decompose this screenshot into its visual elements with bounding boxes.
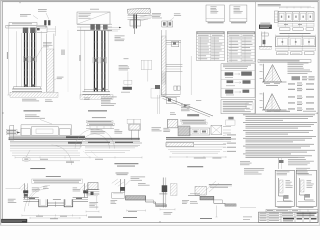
sealant panel box bbox=[221, 64, 255, 98]
wind formula block 5 bbox=[288, 102, 295, 105]
panel captions bbox=[278, 206, 292, 209]
jamb det A caption bbox=[88, 216, 102, 219]
scale note bbox=[124, 57, 129, 60]
table header band bbox=[227, 32, 255, 35]
scan edge shading bbox=[0, 0, 320, 1]
detail 1 mullion clamp boxes bbox=[23, 57, 29, 63]
detail 2 left dim bbox=[80, 27, 82, 96]
table column line bbox=[240, 34, 242, 62]
connection note text bbox=[119, 64, 128, 67]
detail 1 anchor leader text bbox=[38, 8, 47, 11]
plan A glazing band bbox=[9, 137, 86, 140]
plan B jamb step rects bbox=[127, 119, 134, 123]
jamb detail head boxes bbox=[162, 21, 167, 27]
glazing bead leader text bbox=[288, 156, 305, 159]
wind graph 1 axes bbox=[263, 64, 265, 82]
detail 2 sill profile bbox=[84, 89, 108, 91]
panel 2 stepped profile bbox=[300, 178, 314, 200]
jamb det B dims bbox=[127, 210, 146, 212]
publisher stamp bbox=[259, 25, 272, 29]
jamb det B mullion bbox=[119, 179, 121, 193]
sill det dim bbox=[160, 208, 175, 210]
title block small cell texts bbox=[260, 212, 267, 215]
wind graph 1 axis labels bbox=[260, 64, 263, 67]
wind graph 1 hatched triangle bbox=[264, 65, 282, 83]
legend box bbox=[221, 100, 255, 114]
plan B bottom dashed leader bbox=[84, 151, 98, 157]
detail 1 leader bbox=[33, 16, 38, 20]
plan A outline top bbox=[21, 124, 72, 126]
sealant cell 1 bbox=[225, 72, 234, 75]
wind formula block 6 bbox=[288, 108, 295, 111]
connection leader line bbox=[127, 72, 129, 87]
detail 1 mullion A bbox=[24, 33, 25, 87]
connection dark bar bbox=[123, 87, 132, 90]
sealant panel header text bbox=[223, 64, 251, 67]
plan A caption bbox=[30, 168, 45, 169]
elevation 1 frame bbox=[278, 12, 314, 22]
wind panel title bbox=[258, 60, 311, 63]
jamb det B hatch ticks bbox=[112, 179, 124, 186]
plan B right note bbox=[152, 126, 162, 129]
pocket wing right bbox=[73, 196, 88, 198]
detail 2 transom profile bbox=[77, 23, 112, 25]
threshold title bbox=[209, 183, 232, 186]
detail 3 hanger bars bbox=[133, 14, 134, 28]
file stamp bar bbox=[1, 219, 27, 223]
plan B swing arcs bbox=[75, 129, 114, 149]
elevation panel separator bbox=[255, 2, 257, 114]
title block verticals bbox=[267, 212, 269, 222]
pocket left post bbox=[24, 183, 26, 199]
table frame bbox=[197, 32, 225, 61]
pocket dim lines bbox=[22, 214, 87, 216]
title block frame bbox=[259, 212, 319, 222]
wind formula block 1 bbox=[292, 76, 301, 80]
detail 2 glass edge right bbox=[107, 30, 109, 92]
pocket wing left bbox=[23, 196, 39, 198]
sill det mullion pair bbox=[162, 178, 164, 208]
jamb wall hatched strip bbox=[161, 30, 163, 96]
jamb det B panel box bbox=[112, 193, 125, 199]
plan A left end cap bbox=[10, 126, 14, 141]
connection caption bbox=[121, 91, 130, 94]
pocket left post hatch ticks bbox=[19, 184, 28, 192]
detail 1 wall note bbox=[57, 76, 64, 79]
plan C head assembly bbox=[178, 126, 190, 136]
wind formula block 4 bbox=[288, 96, 295, 99]
panel 1 box bbox=[275, 170, 294, 206]
table subheader bbox=[197, 36, 225, 38]
table header band bbox=[197, 32, 225, 35]
title block mid horizontal bbox=[259, 216, 319, 218]
detail 2 mullion head blocks bbox=[90, 25, 94, 30]
plan C corner note bbox=[240, 160, 250, 163]
threshold bars upper bbox=[190, 193, 200, 195]
jamb angled sill bbox=[163, 96, 214, 116]
detail 1 sill profile bbox=[14, 86, 40, 89]
jamb det A profiles bbox=[86, 189, 99, 191]
detail 1 floor hatch bbox=[10, 92, 58, 97]
detail 1 wall strip bbox=[46, 34, 48, 92]
threshold leaders bbox=[206, 181, 216, 190]
detail 1 right dim faint bbox=[67, 30, 69, 92]
sealant cell 3 bbox=[225, 90, 233, 94]
panel 2 inner text bbox=[307, 179, 312, 182]
pocket label strip bbox=[32, 179, 83, 183]
threshold dim vertical bbox=[216, 206, 218, 218]
table column line bbox=[210, 34, 212, 60]
bottom centre caption bbox=[116, 172, 129, 175]
cluster verticals down bbox=[157, 95, 159, 114]
jamb det A dim bbox=[86, 211, 99, 213]
jamb det B right bar bbox=[156, 205, 167, 207]
elevation 1 top dim bbox=[280, 7, 315, 9]
glazing bead mini detail bbox=[278, 158, 280, 170]
pocket hinge blobs bbox=[23, 190, 28, 193]
lower-left legend text bbox=[244, 167, 264, 170]
threshold right bar bbox=[225, 204, 236, 206]
plan dims bbox=[15, 156, 142, 158]
detail 2 floor hatch bbox=[80, 95, 113, 100]
detail 2 mullion clamps bbox=[93, 58, 99, 64]
detail 1 mullion B bbox=[31, 33, 32, 87]
elevation panel title bbox=[258, 4, 281, 5]
jamb small paired rects bbox=[174, 86, 177, 90]
plan C glazing band bbox=[166, 136, 231, 139]
wind formula block 2 bbox=[288, 83, 295, 86]
detail 1 head bracket box bbox=[37, 27, 47, 33]
plan A inner text bbox=[91, 129, 103, 132]
detail 2 mullion A bbox=[94, 31, 95, 92]
plan A interlock dark blocks bbox=[66, 136, 85, 138]
strip cluster bbox=[151, 89, 160, 99]
plan A top note text bbox=[25, 114, 37, 117]
detail 2 sill notes bbox=[84, 97, 90, 100]
detail 3 soffit lines bbox=[128, 14, 153, 16]
plan C left leader text bbox=[163, 127, 168, 130]
frame centring ticks bbox=[2, 112, 4, 114]
plan A detail bubble bbox=[22, 157, 30, 161]
threshold sub labels bbox=[190, 200, 197, 203]
jamb vertical glass line bbox=[179, 40, 181, 95]
plan B track blocks bbox=[88, 142, 110, 143]
plan A swing arc bbox=[52, 145, 72, 165]
wind graph 2 axes bbox=[263, 93, 265, 111]
panel 1 header text bbox=[277, 171, 290, 174]
plan B label strips bbox=[92, 116, 106, 119]
wind notes text bbox=[288, 62, 309, 65]
plan B lower profiles bbox=[85, 140, 140, 142]
detail 1 caption bbox=[24, 110, 41, 111]
corner box detail bbox=[141, 60, 152, 69]
wind graph 2 hatched triangle bbox=[265, 94, 281, 111]
detail 3 bracket box bbox=[130, 20, 140, 26]
cluster horizontals bbox=[161, 93, 180, 95]
plan C top note bbox=[170, 111, 175, 114]
plan C right leader labels bbox=[227, 134, 236, 137]
elevation 2 windows bbox=[277, 38, 288, 45]
sample box A caption bbox=[208, 21, 224, 24]
panel 2 box bbox=[296, 170, 316, 206]
sealant cell 2 bbox=[227, 80, 234, 83]
detail 1 anchor bolts bbox=[44, 20, 46, 25]
title block revision row bbox=[266, 209, 318, 212]
jamb det A label bbox=[89, 201, 98, 204]
jamb mid window bars bbox=[166, 63, 182, 65]
detail 1 sill notes bbox=[22, 98, 36, 101]
plan A mid rail bbox=[10, 134, 85, 136]
elevation 1 plan strips bbox=[280, 28, 291, 31]
threshold step bbox=[214, 196, 237, 206]
detail 1 label text bbox=[20, 13, 31, 16]
table frame bbox=[227, 32, 255, 63]
table subheader bbox=[227, 36, 255, 38]
threshold hatch wedge bbox=[195, 186, 206, 195]
elevation 2 top dim bbox=[276, 34, 316, 36]
elevation 2 title bbox=[280, 32, 311, 35]
elevation 1 left schedule bar bbox=[274, 11, 278, 23]
pocket centre band bbox=[47, 202, 64, 204]
pocket left label bbox=[8, 198, 16, 201]
wind formula block 3 bbox=[288, 88, 295, 91]
detail 2 mullion B bbox=[101, 31, 102, 92]
sample box B caption bbox=[231, 21, 246, 24]
pocket right post bbox=[84, 183, 86, 197]
detail 1 glass line right bbox=[28, 33, 30, 87]
plan B upper profile strip bbox=[86, 125, 114, 127]
sample box A bbox=[206, 5, 224, 22]
detail 2 right note text bbox=[115, 35, 125, 38]
jamb sill leader text bbox=[181, 103, 190, 106]
left-of-titleblock dim marks bbox=[240, 207, 256, 209]
detail 2 infill panel bbox=[90, 8, 99, 11]
jamb upper window bars bbox=[166, 39, 181, 41]
title block number cells bbox=[297, 218, 303, 220]
jamb det B step bbox=[146, 196, 167, 205]
pocket swing arc bbox=[25, 185, 51, 211]
frame fold tick bbox=[19, 2, 21, 3]
title block drawing title bbox=[283, 218, 294, 220]
pocket detail caption top bbox=[46, 175, 61, 178]
plan C lower lines bbox=[166, 139, 231, 141]
plan A left label boxes bbox=[6, 129, 17, 131]
elevation 2 frame bbox=[276, 37, 316, 47]
threshold caption bbox=[200, 217, 212, 220]
legend sample chip bbox=[246, 103, 253, 109]
panel 2 header text bbox=[298, 171, 308, 174]
elevation 2 bottom dims bbox=[276, 47, 316, 49]
elevation 1 door leafs bbox=[279, 13, 284, 20]
threshold dark bar bbox=[200, 196, 214, 200]
panel 1 inner text bbox=[286, 179, 290, 182]
left jamb mini-detail bbox=[261, 32, 263, 47]
sample box B bbox=[230, 5, 247, 22]
detail 1 mullion head blocks bbox=[23, 28, 28, 34]
detail 1 head transom profile bbox=[6, 24, 46, 26]
table rows bbox=[198, 37, 209, 40]
elevation 1 bottom dims bbox=[278, 23, 314, 25]
plan C hatched lower band bbox=[166, 143, 194, 147]
sill det dark fitting bbox=[162, 185, 168, 192]
jamb glass vertical 2 bbox=[190, 56, 192, 95]
plan A head boxes bbox=[21, 129, 30, 136]
sill det text bbox=[164, 211, 173, 214]
jamb det A vertical bbox=[96, 196, 98, 210]
plan C right profiles bbox=[223, 126, 231, 128]
jamb det B leader texts bbox=[131, 176, 146, 179]
jamb det B hatched bar bbox=[126, 196, 146, 200]
notes text block bbox=[243, 113, 315, 116]
jamb det A wall hatch bbox=[88, 183, 98, 190]
plan A lower profiles bbox=[10, 140, 85, 142]
detail 1 left dimension line bbox=[8, 26, 10, 95]
note beside panels bbox=[296, 167, 310, 170]
connection box bbox=[124, 80, 132, 84]
notes title bbox=[267, 110, 290, 113]
detail 1 head channel bbox=[9, 23, 37, 26]
detail 2 head fixings leader bbox=[107, 27, 120, 29]
pocket inner labels bbox=[32, 187, 39, 190]
panel 1 base line bbox=[277, 201, 293, 203]
plan B glazing band bbox=[85, 137, 140, 140]
title block project title text bbox=[297, 213, 317, 214]
pocket left leader bbox=[6, 187, 21, 189]
jamb head leader text bbox=[174, 12, 181, 15]
threshold left label bbox=[182, 199, 189, 202]
sill det hatch strip bbox=[171, 184, 178, 196]
jamb det B caption bbox=[123, 216, 137, 219]
pocket U-channel left bbox=[39, 199, 48, 207]
segmented strip bbox=[162, 72, 166, 74]
detail 1 clamp note text bbox=[43, 41, 52, 44]
plan B caption bbox=[114, 163, 138, 164]
plan C caption bbox=[187, 166, 203, 167]
plan C label strips bbox=[181, 119, 206, 121]
table rows bbox=[229, 37, 241, 40]
jamb det B left label bbox=[111, 199, 118, 202]
detail 2 caption bbox=[88, 110, 107, 111]
plan C top-right box bbox=[226, 120, 235, 125]
detail 3 roof slab hatch bbox=[128, 8, 151, 14]
plan C left hatched blocks bbox=[167, 119, 178, 128]
elevation 2 plan strips bbox=[277, 52, 289, 55]
panel 1 stepped profile bbox=[279, 178, 292, 201]
plan B jamb block bbox=[129, 124, 141, 130]
detail 3 drop rod bbox=[134, 29, 136, 35]
wind graph 2 labels bbox=[260, 93, 263, 96]
detail 1 glass line left bbox=[16, 31, 18, 87]
plan C dims bbox=[170, 156, 226, 158]
detail 3 leader text bbox=[152, 12, 161, 15]
pocket U-channel right bbox=[64, 199, 73, 207]
plan C braced box bbox=[211, 125, 222, 134]
